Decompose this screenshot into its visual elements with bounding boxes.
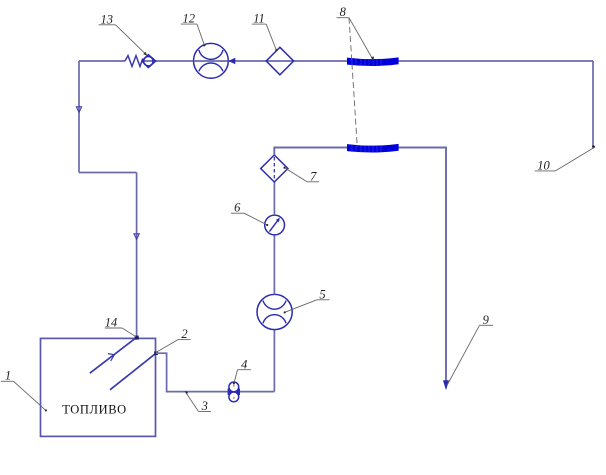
flow arrowhead into pump 12 — [228, 58, 235, 64]
label 1 — [1, 369, 47, 412]
svg-text:6: 6 — [234, 201, 241, 215]
svg-text:14: 14 — [105, 316, 118, 330]
filter 7 diamond — [261, 155, 288, 182]
coupling 4 red marks — [233, 385, 235, 387]
label 3 — [185, 391, 211, 413]
wire horizontal y=172.5 — [79, 172, 137, 174]
pump 12 circle — [194, 43, 229, 78]
wire top horizontal y=61 left part — [79, 60, 125, 62]
check valve 13 ball — [144, 57, 153, 66]
label 6 — [231, 201, 268, 226]
pump 5 circle — [257, 294, 292, 329]
pump 5 inner top arc — [263, 301, 286, 310]
svg-text:10: 10 — [537, 158, 550, 172]
label 14 — [105, 316, 136, 337]
heated hose 8b band — [347, 144, 399, 153]
svg-text:1: 1 — [5, 369, 11, 383]
svg-text:3: 3 — [201, 399, 208, 413]
filter 7 element dashed line — [273, 157, 275, 180]
filter 11 diamond — [266, 47, 293, 75]
wire vertical gauge6 to filter7 — [273, 182, 275, 215]
wire top horizontal y=61 right part — [142, 60, 593, 62]
label 13 — [99, 12, 148, 55]
pump 12 inner top arc — [199, 50, 223, 59]
suction pipe diagonal 2 — [110, 353, 156, 390]
suction pipe diagonal 1 — [90, 337, 137, 373]
wire from node2 right/down to y=391.6 — [156, 353, 275, 391]
gauge 6 circle — [265, 215, 285, 235]
svg-text:ТОПЛИВО: ТОПЛИВО — [62, 403, 127, 417]
svg-text:8: 8 — [340, 5, 347, 19]
coupling 4 bottom circle — [229, 392, 239, 402]
svg-text:13: 13 — [101, 12, 114, 26]
wire vertical pump5 to gauge6 — [273, 235, 275, 295]
flow arrow on left vertical — [76, 107, 81, 113]
wire vertical x=274.4 up to pump 5 — [273, 330, 275, 392]
label 12 — [181, 12, 206, 47]
junction 14 square — [135, 336, 139, 340]
heated hose 8a band — [347, 57, 399, 66]
label 11 — [252, 12, 278, 52]
label 8 — [337, 5, 374, 147]
svg-text:7: 7 — [310, 169, 317, 183]
pump 5 inner bottom arc — [263, 315, 286, 324]
label 9 — [447, 313, 493, 386]
wire through pump 12 — [194, 60, 229, 62]
relief valve 13 spring — [125, 56, 143, 67]
svg-text:11: 11 — [253, 12, 265, 26]
label 5 — [284, 287, 330, 313]
label 10 — [535, 148, 594, 173]
svg-text:12: 12 — [183, 12, 196, 26]
pump 12 inner bottom arc — [199, 63, 223, 71]
svg-text:2: 2 — [181, 327, 187, 341]
svg-text:4: 4 — [241, 357, 247, 371]
svg-text:9: 9 — [483, 313, 490, 327]
outlet arrow 9 — [443, 381, 448, 390]
wire vertical x=136.6 down to tank — [136, 173, 138, 338]
gauge 6 needle — [269, 219, 279, 232]
junction 2 square — [154, 351, 158, 355]
label 7 — [283, 167, 319, 184]
flow arrow on diagonal 1 — [108, 354, 115, 361]
label 4 — [233, 357, 251, 384]
svg-text:5: 5 — [319, 287, 325, 301]
wire filter7 top to corner then right y=147.5 — [274, 148, 446, 382]
tank (item 1) — [41, 338, 156, 436]
coupling 4 top circle — [229, 382, 239, 392]
coupling 4 bowtie valves — [228, 388, 240, 395]
node 10 terminal dot — [592, 145, 595, 148]
flow arrow on x=136.6 vertical — [134, 234, 139, 240]
label 2 — [156, 327, 191, 352]
wire left vertical x=79 — [78, 61, 80, 173]
wire right vertical x=593 — [592, 61, 594, 147]
check valve 13 seat diamond — [142, 55, 156, 68]
